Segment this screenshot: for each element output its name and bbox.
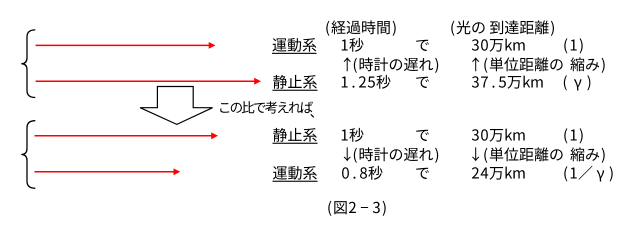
text: mid2 tanni kyori no "(単位距離の" — [484, 147, 562, 163]
left curly brace (top group) — [21, 30, 35, 98]
red arrow A2 (rest frame, top) — [36, 78, 261, 85]
text: mid1 up arrow b "↑" — [472, 57, 479, 71]
text: row4 undoukei label "運動系" — [273, 166, 317, 180]
text: row3 seishikei label "静止系" — [273, 128, 317, 142]
red arrow A1 (moving frame, top) — [36, 42, 216, 49]
text: mid2 down arrow b "↓" — [472, 147, 479, 161]
left curly brace (bottom group) — [21, 121, 35, 189]
text: row1 (1) "(1)" — [564, 38, 582, 53]
text: row2 37.5man km "37.5万km" — [472, 76, 543, 89]
text: row1 de "で" — [416, 40, 429, 51]
text: mid1 tanni kyori no "(単位距離の" — [484, 57, 562, 73]
red arrow A4 (moving frame, bottom) — [35, 168, 181, 175]
text: row3 30man km "30万km" — [472, 129, 525, 142]
text: row1 undoukei label "運動系" — [273, 38, 317, 52]
text: row2 1.25byou "1.25秒" — [342, 75, 391, 89]
text: row4 de "で" — [416, 168, 429, 179]
text: row1 1byou "1秒" — [342, 38, 364, 52]
text: row3 1byou "1秒" — [342, 128, 364, 142]
red arrow A3 (rest frame, bottom) — [35, 132, 219, 139]
text: caption kono hi de "この比で考えれば" — [220, 101, 313, 113]
text: header2a (hikari no) "(光の" — [451, 20, 484, 36]
text: header2b (toutatsu kyori) "到達距離)" — [490, 20, 554, 36]
underline row1 undoukei — [272, 53, 317, 54]
text: mid2 tokei no okure "(時計の遅れ)" — [354, 147, 438, 163]
text: mid1 tokei no okure "(時計の遅れ)" — [354, 57, 438, 73]
underline row4 undoukei — [273, 181, 318, 182]
underline row3 seishikei — [273, 143, 318, 144]
text: mid1 up arrow a "↑" — [344, 57, 351, 71]
text: row2 seishikei label "静止系" — [273, 75, 317, 89]
text: row2 (gamma) "(γ)" — [564, 75, 591, 90]
text: row1 30man km "30万km" — [472, 39, 525, 52]
text: row3 de "で" — [416, 130, 429, 141]
text: mid2 down arrow a "↓" — [344, 147, 351, 161]
text: row4 (1/gamma) "(1／γ)" — [564, 166, 612, 182]
text: mid2 chijimi "縮み)" — [570, 147, 604, 163]
underline row2 seishikei — [273, 90, 318, 91]
text: figure caption (zu 2-3) "(図2−3)" — [328, 201, 385, 216]
text: header1 (keika jikan) "(経過時間)" — [326, 20, 395, 36]
text: row4 0.8byou "0.8秒" — [342, 166, 382, 180]
text: row2 de "で" — [416, 77, 429, 88]
text: row4 24man km "24万km" — [472, 167, 525, 180]
text: row3 (1) "(1)" — [564, 128, 582, 143]
big hollow down arrow — [140, 87, 213, 125]
text: mid1 chijimi "縮み)" — [570, 57, 604, 73]
text: caption comma "、" — [310, 114, 314, 118]
